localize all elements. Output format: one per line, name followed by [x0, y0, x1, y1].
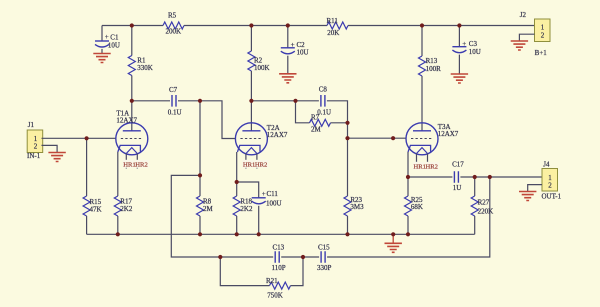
wire C15 to output node	[327, 177, 490, 257]
svg-text:B+1: B+1	[535, 49, 548, 57]
junction ground bottom rail	[391, 232, 395, 236]
wire C11 bottom lead	[258, 206, 260, 235]
svg-text:+: +	[462, 40, 466, 48]
svg-text:HR2: HR2	[426, 164, 438, 171]
wire J4 pin 2 to ground	[528, 185, 542, 192]
junction C7 R8 node	[198, 99, 202, 103]
capacitor C8 0.1U	[317, 85, 331, 116]
svg-text:12AX7: 12AX7	[267, 131, 288, 139]
resistor R1 330K	[128, 26, 153, 101]
svg-text:10U: 10U	[469, 48, 481, 56]
svg-text:12AX7: 12AX7	[438, 130, 459, 138]
svg-text:C13: C13	[273, 243, 285, 251]
svg-text:R21: R21	[266, 277, 278, 285]
junction C11 bottom rail	[257, 232, 261, 236]
svg-text:220K: 220K	[478, 208, 494, 216]
wire J2 pin 2 to ground	[519, 34, 534, 41]
svg-text:R13: R13	[426, 57, 438, 65]
wire T2A plate to C8	[251, 100, 319, 102]
wire J1 pin 2 to ground	[42, 145, 58, 152]
svg-text:1U: 1U	[453, 184, 462, 192]
ground below J1 pin 2	[48, 153, 65, 162]
junction R8 top feedback node	[198, 173, 202, 177]
wire R7 right lead	[331, 122, 348, 124]
svg-text:J1: J1	[28, 121, 35, 129]
svg-text:HR1: HR1	[123, 162, 135, 169]
svg-text:100K: 100K	[254, 64, 270, 72]
svg-text:OUT-1: OUT-1	[542, 193, 562, 201]
connector J4 OUT-1	[542, 160, 562, 200]
svg-text:R27: R27	[478, 198, 490, 206]
wire C8 to T3A grid node	[327, 101, 348, 123]
svg-text:HR1: HR1	[414, 164, 426, 171]
resistor R8 2M	[197, 196, 214, 234]
svg-text:+: +	[105, 33, 109, 41]
wire T1A plate to C7	[132, 100, 170, 102]
svg-text:J4: J4	[543, 160, 550, 168]
svg-text:3M3: 3M3	[350, 203, 364, 211]
wire T3A grid line	[348, 137, 407, 139]
svg-text:20K: 20K	[327, 29, 339, 37]
wire T2A cathode to C11	[237, 182, 259, 198]
svg-text:110P: 110P	[272, 264, 286, 272]
svg-text:2: 2	[541, 31, 545, 39]
wire C17 to J4 pin 1	[460, 176, 542, 178]
resistor R23 3M3	[344, 138, 364, 234]
svg-text:12AX7: 12AX7	[116, 117, 137, 125]
svg-text:2M: 2M	[311, 126, 322, 134]
svg-text:100R: 100R	[426, 65, 442, 73]
wire T2A plate lead	[250, 101, 252, 131]
svg-text:J2: J2	[520, 11, 527, 19]
resistor R18 2K2	[233, 196, 253, 234]
wire T3A cathode to C17	[408, 176, 452, 178]
junction R21 C13 left node	[218, 255, 222, 259]
svg-text:+: +	[291, 41, 295, 49]
wire C7 node down to R8	[199, 101, 201, 196]
junction R25 bottom rail	[406, 232, 410, 236]
junction feedback output line	[488, 175, 492, 179]
junction R7 C8 left node	[293, 99, 297, 103]
triode T1A 12AX7	[116, 110, 149, 169]
junction R1 top rail	[130, 23, 134, 27]
junction R13 top rail	[420, 23, 424, 27]
svg-text:C7: C7	[169, 86, 178, 94]
wire R21 left leg	[220, 257, 269, 286]
svg-text:2: 2	[34, 143, 38, 151]
junction on T3A grid line	[391, 136, 395, 140]
triode T2A 12AX7	[235, 123, 288, 169]
svg-text:0.1U: 0.1U	[168, 109, 182, 117]
svg-text:0.1U: 0.1U	[317, 109, 331, 117]
capacitor C1 10U electrolytic	[95, 33, 120, 49]
svg-text:HR1: HR1	[243, 162, 255, 169]
svg-text:R5: R5	[168, 12, 177, 20]
svg-text:2: 2	[548, 182, 552, 190]
junction R2 top rail	[249, 23, 253, 27]
junction C2 top rail	[286, 23, 290, 27]
wire T3A cathode lead	[407, 152, 409, 196]
capacitor C2 10U electrolytic	[281, 41, 309, 56]
wire T2A cathode lead	[236, 152, 238, 196]
connector J1 IN-1	[27, 121, 43, 160]
resistor R2 100K	[248, 26, 270, 101]
wire J1 pin 1 to T1A grid	[42, 137, 117, 139]
svg-text:C15: C15	[318, 243, 330, 251]
capacitor C15 330P	[317, 243, 332, 272]
wire T1A cathode lead	[117, 152, 119, 196]
capacitor C13 110P	[272, 243, 286, 272]
svg-text:R7: R7	[311, 113, 320, 121]
ground below J2 pin 2	[511, 41, 528, 50]
junction R8 bottom rail	[198, 232, 202, 236]
junction R18 bottom rail	[235, 232, 239, 236]
svg-text:C8: C8	[319, 85, 328, 93]
junction T1A plate node	[130, 99, 134, 103]
wire C8 R7 node down to grid line	[347, 123, 349, 138]
junction R15 T1A grid	[85, 136, 89, 140]
junction R21 C15 right node	[301, 255, 305, 259]
resistor R27 220K	[471, 177, 493, 234]
resistor R21 750K	[266, 277, 291, 299]
triode T3A 12AX7	[406, 123, 459, 171]
resistor R17 2K2	[114, 196, 133, 234]
junction T3A grid node	[345, 136, 349, 140]
svg-text:10U: 10U	[108, 42, 120, 50]
resistor R15 47K	[83, 138, 102, 234]
junction T2A plate node	[249, 99, 253, 103]
wire C2 bottom lead	[287, 56, 289, 74]
capacitor C11 100U electrolytic	[252, 190, 282, 208]
svg-text:68K: 68K	[411, 203, 423, 211]
resistor R13 100R	[419, 26, 442, 131]
svg-text:330K: 330K	[137, 64, 153, 72]
svg-text:100U: 100U	[266, 200, 282, 208]
wire C3 top lead	[458, 26, 460, 47]
resistor R25 68K	[405, 196, 424, 234]
svg-text:2K2: 2K2	[120, 205, 133, 213]
resistor R5 200K	[163, 12, 184, 36]
svg-text:C1: C1	[110, 34, 119, 42]
svg-text:HR2: HR2	[255, 162, 267, 169]
wire C3 bottom lead	[458, 55, 460, 74]
wire C1 top lead	[101, 26, 103, 41]
capacitor C3 10U electrolytic	[452, 40, 480, 56]
capacitor C17 1U	[452, 161, 464, 192]
ground below C2	[279, 74, 296, 83]
wire C13 to C15	[281, 256, 319, 258]
svg-text:+: +	[262, 190, 266, 198]
wire B+ rail left segment	[102, 25, 163, 27]
capacitor C7 0.1U	[168, 86, 182, 117]
svg-text:200K: 200K	[166, 28, 182, 36]
svg-text:330P: 330P	[317, 264, 332, 272]
wire B+ rail middle segment	[184, 25, 327, 27]
junction C3 top rail	[457, 23, 461, 27]
svg-text:47K: 47K	[90, 206, 102, 214]
junction R23 bottom rail	[345, 232, 349, 236]
ground below J4 pin 2	[519, 192, 536, 201]
svg-text:R17: R17	[120, 197, 132, 205]
junction R27 output line	[473, 175, 477, 179]
junction T2A cathode C11	[235, 180, 239, 184]
wire R7 left leg	[296, 101, 310, 123]
junction R17 bottom rail	[116, 232, 120, 236]
ground below C3	[451, 74, 468, 83]
wire C7 to T2A grid	[178, 101, 236, 139]
svg-text:C11: C11	[267, 190, 279, 198]
svg-text:1: 1	[541, 24, 545, 32]
svg-text:1: 1	[548, 174, 552, 182]
resistor R11 20K	[327, 17, 349, 37]
svg-text:C17: C17	[452, 161, 464, 169]
ground below C1	[93, 54, 110, 63]
ground on cathode rail	[385, 234, 402, 252]
wire T1A plate lead	[131, 101, 133, 131]
wire R21 right leg	[291, 257, 304, 286]
junction T3A cathode output	[406, 175, 410, 179]
svg-text:IN-1: IN-1	[27, 152, 41, 160]
junction R7 C8 right node	[345, 121, 349, 125]
resistor R7 2M	[310, 113, 331, 133]
connector J2 B+1	[520, 11, 550, 57]
svg-text:R11: R11	[327, 17, 339, 25]
svg-text:10U: 10U	[297, 49, 309, 57]
wire cathode ground rail	[87, 233, 475, 235]
wire feedback arm to R8 top	[171, 175, 220, 257]
svg-text:2K2: 2K2	[240, 205, 253, 213]
wire C2 top lead	[287, 26, 289, 48]
svg-text:750K: 750K	[267, 291, 283, 299]
wire C1 bottom lead	[101, 49, 103, 54]
wire feedback to C13	[220, 256, 273, 258]
wire B+ rail right segment to J2 pin 1	[348, 25, 535, 27]
svg-text:HR2: HR2	[135, 162, 147, 169]
svg-text:2M: 2M	[203, 205, 214, 213]
